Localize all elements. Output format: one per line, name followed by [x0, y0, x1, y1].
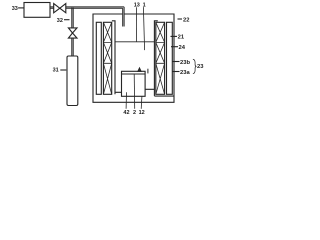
svg-text:32: 32 [57, 18, 63, 24]
svg-text:23: 23 [197, 64, 204, 70]
svg-text:21: 21 [178, 35, 185, 41]
svg-text:23a: 23a [180, 70, 190, 76]
svg-text:13: 13 [134, 2, 140, 8]
svg-text:1: 1 [143, 2, 146, 8]
svg-text:2: 2 [133, 110, 136, 116]
svg-text:23b: 23b [180, 60, 190, 66]
svg-text:24: 24 [179, 45, 186, 51]
svg-text:12: 12 [139, 110, 145, 116]
svg-text:42: 42 [123, 110, 129, 116]
svg-text:22: 22 [183, 18, 189, 24]
svg-text:31: 31 [53, 68, 59, 74]
svg-text:33: 33 [12, 6, 18, 12]
